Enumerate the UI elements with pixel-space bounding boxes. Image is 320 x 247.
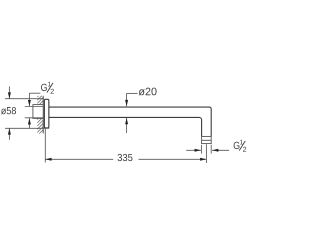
dim G1/2 left: upper dim line + arrow — [28, 93, 30, 106]
dim ø20: upper dim line + arrow — [126, 93, 128, 106]
dim G1/2 right: right ext line — [210, 145, 212, 154]
dim ø20: lower dim line + arrow — [126, 118, 128, 133]
dim G1/2 left: lower dim line + arrow — [28, 118, 30, 128]
dim 335: right ext line (tube centreline) — [205, 144, 207, 163]
dim G1/2 left: label — [41, 82, 54, 94]
dim G1/2 right: right arrow + tail — [212, 149, 229, 151]
dim ø20: leader + label — [127, 92, 138, 94]
dim G1/2 right: left arrow + tail — [186, 149, 201, 151]
wall face line — [42, 96, 44, 134]
label ø58 — [1, 107, 16, 114]
escutcheon flange — [44, 99, 49, 128]
label 335 — [118, 154, 133, 161]
dim G1/2 left: leader to label — [29, 92, 40, 94]
dim 335: dim line left segment + arrow — [45, 158, 113, 160]
wall hatching (upper band) — [37, 96, 43, 105]
threaded inlet connector behind wall — [33, 105, 43, 119]
tube end thread line — [202, 139, 212, 141]
ext line G1/2 bottom (also connector inner line) — [25, 117, 43, 119]
ext line G1/2 top (also connector inner line) — [25, 106, 43, 108]
dim G1/2 right: left ext line — [201, 145, 203, 154]
dim 335: dim line right segment + arrow — [139, 158, 207, 160]
dim ø58: ext line bottom — [5, 127, 49, 129]
dim ø58: lower dim line + arrow — [8, 128, 10, 140]
dim ø58: ext line top — [5, 98, 44, 100]
tube threaded tip — [202, 136, 212, 143]
wall hatching (lower band) — [37, 118, 43, 133]
dim ø58: upper dim line + arrow — [8, 86, 10, 98]
label ø20 — [139, 88, 157, 96]
dim G1/2 right: label — [234, 140, 247, 152]
shower arm tube outline — [49, 107, 211, 136]
dim 335: left ext line — [44, 129, 46, 163]
